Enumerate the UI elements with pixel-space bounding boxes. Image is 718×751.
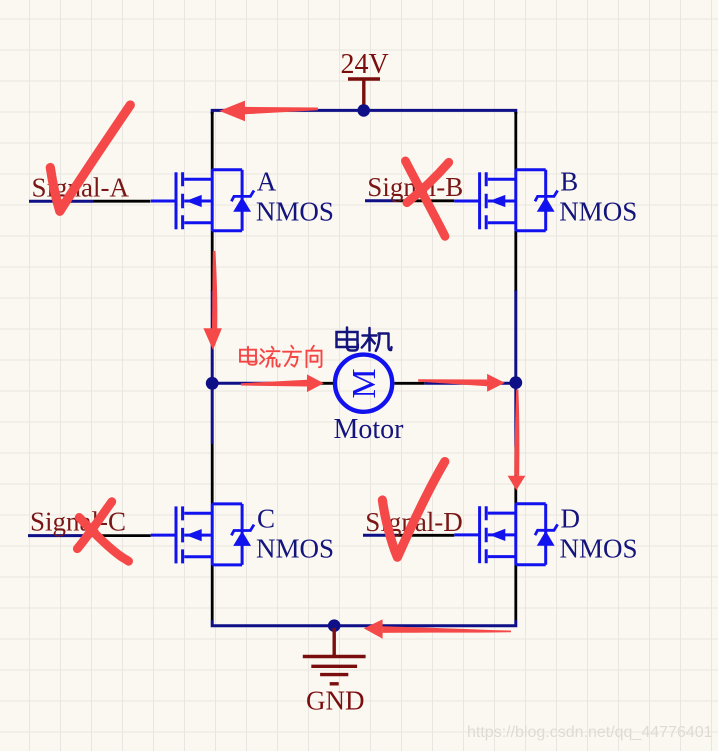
annotation arrow down-left [203,251,222,350]
pin D gate [396,534,454,537]
annotation X-mark B stroke 1 [405,161,445,236]
svg-text:Motor: Motor [334,414,405,445]
annotation text dianliu-fangxiang char xiang [307,346,322,368]
annotation X-mark C stroke 1 [79,517,128,561]
wire signal-D [363,534,396,537]
wire right node down [514,383,517,446]
pin D source [514,565,517,620]
motor label dianji char ji [362,328,392,351]
svg-text:NMOS: NMOS [560,534,638,564]
transistor Q-D [454,504,557,565]
svg-text:24V: 24V [341,49,389,80]
pin A gate [94,200,151,203]
annotation text dianliu-fangxiang char liu [260,347,280,367]
svg-text:C: C [257,504,275,534]
wire signal-A [29,200,94,203]
wire left node down [211,383,214,444]
svg-text:GND: GND [306,686,365,716]
svg-text:D: D [561,504,581,534]
svg-text:B: B [560,166,578,196]
wire motor right to node [424,382,516,385]
wire B source to node [514,290,517,383]
junction right node [509,376,522,389]
annotation text dianliu-fangxiang char fang [283,346,301,367]
pin B gate [395,199,454,202]
annotation X-mark B stroke 2 [407,162,449,202]
svg-text:NMOS: NMOS [256,196,334,226]
junction left node [206,377,219,390]
svg-text:M: M [346,368,383,398]
pin A source [211,231,214,291]
annotation X-mark C stroke 2 [77,502,112,549]
pin A drain [211,112,214,170]
pin B source [514,231,517,291]
junction GND [328,619,341,632]
wire node to motor left [212,382,303,385]
pin motor left [303,382,334,385]
annotation text dianliu-fangxiang char dian [240,347,257,365]
annotation arrow down-right [508,390,526,491]
annotation arrow motor-left [241,374,324,392]
pin C source [211,565,214,620]
pin B drain [514,112,517,170]
wire top rail [212,110,516,114]
junction 24V [357,104,370,117]
svg-text:NMOS: NMOS [559,196,637,226]
pin D drain [514,446,517,504]
svg-text:NMOS: NMOS [256,534,334,564]
annotation checkmark D [382,462,444,558]
wire bottom rail [212,620,516,626]
wire signal-C [28,534,94,537]
pin C gate [94,534,151,537]
ground symbol [303,628,366,684]
annotation arrow bottom [364,619,511,638]
power port 24V [348,79,380,105]
transistor Q-C [151,504,254,565]
transistor Q-B [454,170,557,231]
svg-text:https://blog.csdn.net/qq_44776: https://blog.csdn.net/qq_44776401 [467,724,713,741]
pin motor right [394,382,424,385]
annotation checkmark A [50,105,130,211]
svg-text:A: A [257,166,277,196]
wire signal-B [365,199,395,202]
annotation arrow top-left [219,101,318,122]
wire A source to node [211,290,214,383]
annotation arrow motor-right [418,374,505,392]
motor label dianji char dian [337,328,358,351]
transistor Q-A [151,170,254,231]
pin C drain [211,444,214,504]
motor M1 circle [335,355,392,412]
